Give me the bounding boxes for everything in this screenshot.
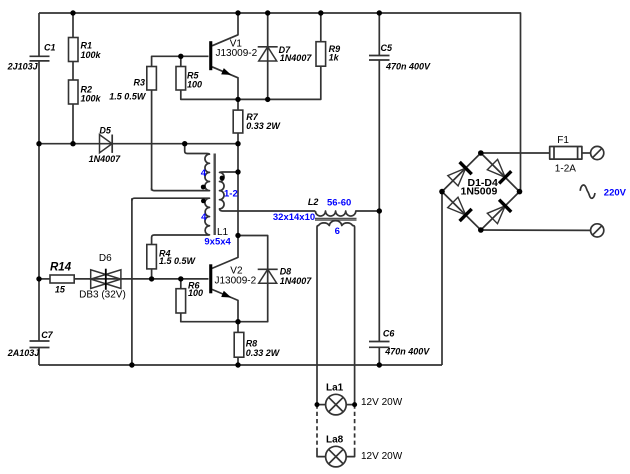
- svg-text:0.33 2W: 0.33 2W: [246, 348, 281, 358]
- svg-text:C6: C6: [383, 329, 395, 339]
- svg-text:R1: R1: [81, 40, 93, 50]
- svg-text:0.33 2W: 0.33 2W: [246, 121, 281, 131]
- svg-text:D6: D6: [99, 253, 112, 264]
- svg-text:4: 4: [201, 212, 207, 223]
- svg-text:12V 20W: 12V 20W: [361, 451, 403, 462]
- svg-text:100: 100: [188, 288, 203, 298]
- svg-text:J13009-2: J13009-2: [216, 48, 258, 59]
- svg-text:1N4007: 1N4007: [280, 276, 313, 286]
- svg-text:DB3 (32V): DB3 (32V): [79, 290, 126, 301]
- svg-text:2A103J: 2A103J: [7, 348, 41, 358]
- svg-text:F1: F1: [557, 135, 569, 146]
- svg-text:56-60: 56-60: [327, 198, 351, 209]
- svg-text:470n 400V: 470n 400V: [385, 62, 431, 72]
- svg-text:1.5 0.5W: 1.5 0.5W: [109, 91, 147, 101]
- svg-text:6: 6: [335, 226, 340, 237]
- svg-text:La8: La8: [326, 435, 344, 446]
- svg-text:R8: R8: [246, 339, 258, 349]
- svg-text:D8: D8: [280, 267, 292, 277]
- svg-text:1N4007: 1N4007: [280, 53, 313, 63]
- svg-text:1k: 1k: [329, 53, 340, 63]
- svg-text:C5: C5: [381, 43, 393, 53]
- svg-text:100k: 100k: [81, 50, 102, 60]
- svg-text:L2: L2: [308, 197, 319, 207]
- svg-text:100: 100: [187, 80, 202, 90]
- svg-text:D5: D5: [99, 126, 111, 136]
- svg-text:100k: 100k: [81, 94, 102, 104]
- svg-text:32x14x10: 32x14x10: [273, 212, 315, 223]
- svg-text:2J103J: 2J103J: [7, 61, 39, 71]
- svg-text:La1: La1: [326, 383, 344, 394]
- svg-text:15: 15: [55, 285, 66, 295]
- svg-text:J13009-2: J13009-2: [215, 276, 257, 287]
- svg-text:12V 20W: 12V 20W: [361, 397, 403, 408]
- svg-text:1.5 0.5W: 1.5 0.5W: [159, 256, 197, 266]
- svg-text:4: 4: [201, 168, 207, 179]
- svg-text:9x5x4: 9x5x4: [204, 237, 231, 248]
- svg-text:1-2: 1-2: [224, 188, 238, 199]
- svg-text:C1: C1: [44, 43, 56, 53]
- svg-text:1-2A: 1-2A: [555, 164, 576, 175]
- svg-text:1N5009: 1N5009: [461, 185, 498, 197]
- svg-text:R14: R14: [50, 262, 72, 274]
- svg-text:220V: 220V: [604, 188, 627, 199]
- svg-text:470n 400V: 470n 400V: [384, 347, 430, 357]
- svg-text:C7: C7: [41, 330, 53, 340]
- svg-text:1N4007: 1N4007: [89, 154, 122, 164]
- svg-text:R3: R3: [134, 77, 146, 87]
